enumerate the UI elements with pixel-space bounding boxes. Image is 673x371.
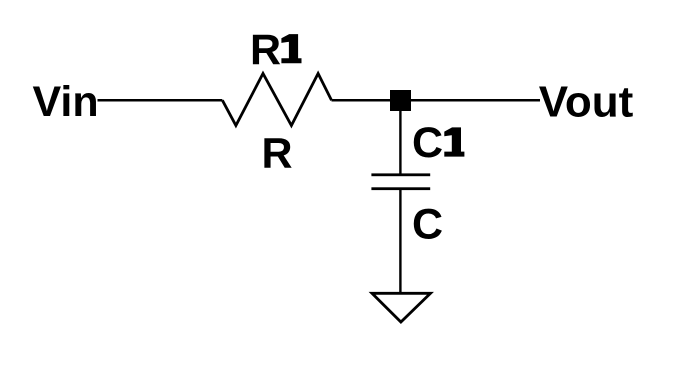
svg-text:R: R	[250, 26, 281, 74]
wire node to capacitor	[399, 110, 401, 174]
svg-text:C: C	[412, 201, 443, 249]
label C1	[412, 119, 464, 167]
node junction square	[390, 90, 411, 111]
capacitor C1 top plate	[371, 173, 430, 176]
resistor R1	[222, 74, 331, 126]
svg-text:Vin: Vin	[33, 78, 99, 126]
label R1	[250, 26, 302, 74]
svg-text:C: C	[412, 119, 443, 167]
wire Vin to resistor	[98, 99, 223, 102]
svg-text:R: R	[262, 130, 293, 178]
ground	[372, 293, 431, 322]
svg-text:Vout: Vout	[539, 78, 634, 127]
wire capacitor to ground	[399, 190, 401, 292]
wire node to Vout	[410, 99, 540, 102]
capacitor C1 bottom plate	[371, 187, 430, 190]
wire resistor to node	[332, 99, 392, 102]
